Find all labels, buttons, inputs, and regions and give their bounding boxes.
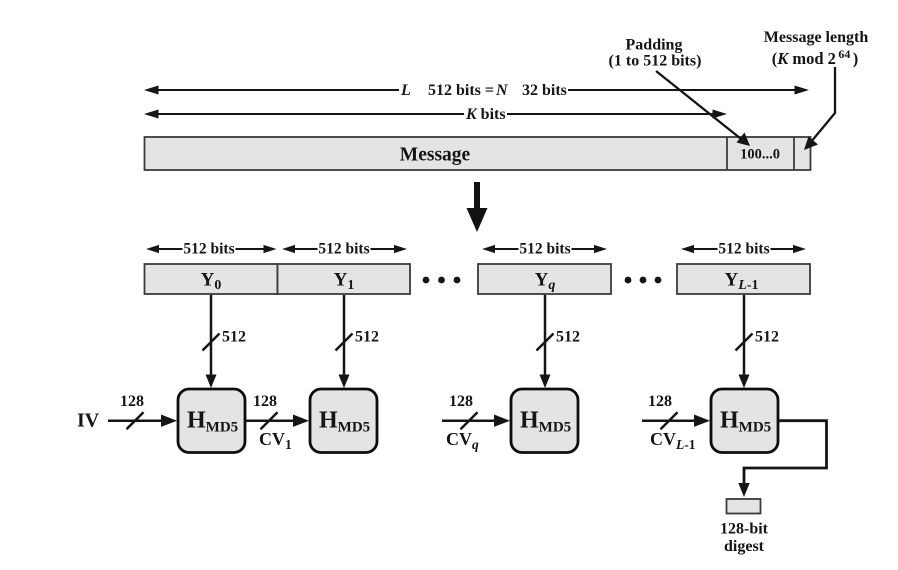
svg-text:(K mod 2 64 ): (K mod 2 64 ): [772, 47, 859, 68]
ellipsis dots between Yq and YL-1: [625, 277, 662, 284]
svg-text:512 bits: 512 bits: [519, 241, 570, 258]
wire: K bits double arrow: [156, 113, 715, 115]
slash: 128 bus mark CV1: [261, 412, 278, 429]
arrow: IV into HMD5 #1 (128 bus): [108, 419, 163, 422]
svg-text:128: 128: [120, 393, 144, 410]
wire: L x 512 bits = N x 32 bits double arrow: [156, 89, 797, 91]
wire: message length pointer: [808, 67, 835, 146]
block Yq: [478, 264, 611, 294]
block YL-1: [677, 264, 810, 294]
svg-text:K bits: K bits: [465, 106, 506, 123]
svg-text:512 bits: 512 bits: [183, 241, 234, 258]
svg-text:IV: IV: [77, 410, 100, 432]
slash: 128 bus mark IV: [127, 412, 144, 429]
svg-text:100...0: 100...0: [740, 147, 780, 163]
divider: padding field boundary: [726, 137, 728, 170]
arrow: padding pointer into 100...0 field: [656, 71, 743, 141]
wire: 512 bits span over YL-1: [692, 248, 795, 250]
svg-text:CVL-1: CVL-1: [650, 429, 696, 452]
svg-text:512: 512: [556, 329, 580, 346]
block HMD5 #1: [178, 389, 245, 453]
svg-text:Padding: Padding: [626, 37, 683, 54]
svg-text:512: 512: [755, 329, 779, 346]
svg-text:128: 128: [449, 393, 473, 410]
svg-text:128: 128: [648, 393, 672, 410]
ellipsis dots between Y1 and Yq: [423, 277, 461, 284]
svg-text:128: 128: [253, 393, 277, 410]
arrow: YL-1 into HMD5 #4: [743, 295, 746, 376]
arrow: Y1 into HMD5 #2: [343, 295, 346, 376]
svg-text:L512 bits =N32 bits: L512 bits =N32 bits: [400, 82, 567, 99]
arrow: message to blocks (big down arrow): [467, 182, 488, 232]
svg-text:(1 to 512 bits): (1 to 512 bits): [609, 53, 702, 70]
svg-text:512 bits: 512 bits: [718, 241, 769, 258]
block: digest: [727, 499, 761, 514]
svg-text:512 bits: 512 bits: [318, 241, 369, 258]
wire: output of HMD5 #4 to digest: [744, 421, 827, 484]
arrow: CV1 from HMD5 #1 to HMD5 #2 (128 bus): [245, 419, 295, 422]
block HMD5 #2: [310, 389, 377, 453]
svg-text:Message: Message: [400, 145, 471, 166]
slash: 512 bus mark col4: [736, 334, 753, 351]
block: Message bar: [145, 137, 811, 170]
arrow: CVL-1 into HMD5 #4 (128 bus): [642, 419, 696, 422]
block HMD5 #3: [511, 389, 578, 453]
slash: 512 bus mark col3: [537, 334, 554, 351]
slash: 128 bus mark CVq: [461, 412, 478, 429]
svg-text:CVq: CVq: [446, 429, 479, 452]
svg-text:digest: digest: [724, 538, 765, 555]
slash: 512 bus mark col1: [203, 334, 220, 351]
arrow: Yq into HMD5 #3: [544, 295, 547, 376]
svg-text:Message length: Message length: [764, 29, 869, 46]
arrow: Y0 into HMD5 #1: [210, 295, 213, 376]
svg-text:512: 512: [222, 329, 246, 346]
wire: 512 bits span over Yq: [493, 248, 596, 250]
wire: 512 bits span over Y1: [293, 248, 396, 250]
arrow: CVq into HMD5 #3 (128 bus): [442, 419, 496, 422]
block HMD5 #4: [711, 389, 778, 453]
divider: length field boundary: [793, 137, 795, 170]
slash: 128 bus mark CVL-1: [661, 412, 678, 429]
svg-text:512: 512: [355, 329, 379, 346]
block Y0: [145, 264, 278, 294]
slash: 512 bus mark col2: [336, 334, 353, 351]
wire: 512 bits span over Y0: [157, 248, 265, 250]
svg-text:CV1: CV1: [259, 429, 292, 452]
svg-text:128-bit: 128-bit: [720, 521, 769, 538]
block Y1: [278, 264, 411, 294]
